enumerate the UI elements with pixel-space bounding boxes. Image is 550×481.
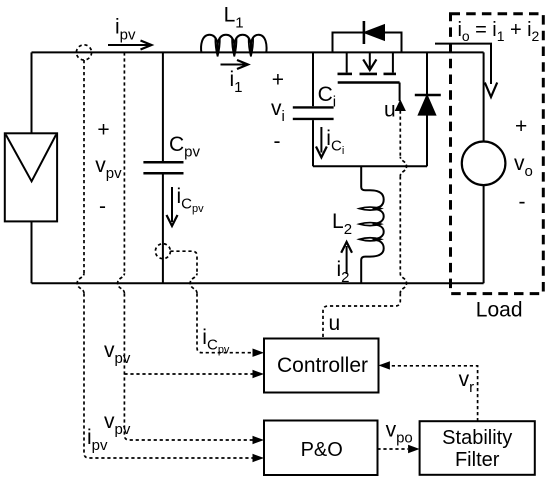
capacitor Cpv bbox=[143, 52, 183, 283]
node: ipv current sense circle bbox=[76, 45, 91, 60]
svg-text:+: + bbox=[272, 69, 284, 92]
svg-text:u: u bbox=[384, 99, 396, 122]
svg-text:iCpv: iCpv bbox=[202, 326, 230, 356]
svg-text:P&O: P&O bbox=[301, 439, 343, 461]
svg-text:Load: Load bbox=[476, 299, 523, 322]
arrowhead ipv into P&O bbox=[253, 454, 265, 462]
svg-text:vpv: vpv bbox=[104, 410, 131, 438]
inductor L2 bbox=[359, 166, 383, 283]
PV panel bbox=[5, 133, 57, 221]
inductor L1 bbox=[201, 35, 266, 57]
MOSFET Q1 bbox=[338, 52, 400, 101]
svg-text:Controller: Controller bbox=[277, 354, 368, 377]
svg-text:iCi: iCi bbox=[326, 127, 344, 157]
svg-text:Filter: Filter bbox=[455, 449, 500, 471]
svg-text:+: + bbox=[515, 115, 527, 138]
arrowhead vpo into stability filter bbox=[408, 445, 420, 453]
svg-text:vo: vo bbox=[514, 152, 533, 180]
node: iCpv sense circle bbox=[155, 244, 170, 259]
svg-text:-: - bbox=[274, 130, 281, 153]
body diode D1 bbox=[333, 21, 402, 52]
arrowhead vpv into P&O bbox=[253, 436, 265, 444]
signal line vr bbox=[390, 366, 478, 421]
arrow i1 bbox=[221, 64, 246, 66]
svg-text:vpv: vpv bbox=[95, 154, 122, 182]
controller box bbox=[264, 339, 379, 393]
u gate arrowhead bbox=[396, 101, 406, 111]
stability filter box bbox=[420, 421, 535, 475]
svg-text:i1: i1 bbox=[230, 68, 243, 96]
wire: bottom rail bbox=[32, 282, 484, 284]
arrow i2 bbox=[346, 246, 348, 274]
signal line u bbox=[399, 111, 401, 157]
arrowhead vpv into controller bbox=[253, 370, 265, 378]
arrow iCi bbox=[320, 127, 322, 153]
svg-text:Stability: Stability bbox=[442, 427, 512, 449]
svg-text:-: - bbox=[99, 195, 106, 218]
P&O box bbox=[264, 421, 378, 476]
arrow i_pv bbox=[108, 44, 150, 46]
signal line vpv to controller bbox=[124, 373, 252, 375]
svg-text:vi: vi bbox=[271, 97, 285, 125]
svg-text:vpv: vpv bbox=[104, 339, 131, 367]
wire: top rail bbox=[32, 51, 484, 53]
diode D2 bbox=[415, 52, 441, 166]
capacitor Ci bbox=[293, 52, 334, 166]
svg-text:L2: L2 bbox=[332, 210, 352, 238]
arrow iCpv bbox=[171, 187, 173, 222]
svg-text:Cpv: Cpv bbox=[169, 133, 201, 161]
svg-text:u: u bbox=[329, 312, 341, 335]
svg-text:L1: L1 bbox=[224, 4, 244, 32]
arrow io bbox=[435, 44, 491, 84]
wire from source bottom bbox=[483, 185, 485, 283]
voltage source vo bbox=[462, 142, 506, 186]
load box bbox=[451, 14, 544, 294]
svg-text:iCpv: iCpv bbox=[177, 185, 205, 215]
svg-text:vr: vr bbox=[459, 368, 475, 396]
arrowhead vr into controller bbox=[378, 361, 390, 369]
wire: PV bottom to bottom rail bbox=[31, 221, 33, 283]
wire into load top bbox=[483, 52, 485, 141]
svg-text:ipv: ipv bbox=[115, 16, 136, 44]
arrowhead iCpv into controller bbox=[253, 349, 265, 357]
signal line ipv bbox=[83, 60, 85, 273]
signal line vpv tap bbox=[123, 52, 125, 273]
wire: PV top to top rail bbox=[31, 52, 33, 133]
signal line iCpv bbox=[170, 251, 197, 273]
svg-text:vpo: vpo bbox=[386, 419, 413, 447]
svg-text:+: + bbox=[97, 119, 109, 142]
svg-text:io = i1 + i2: io = i1 + i2 bbox=[458, 19, 540, 44]
wire: middle block bottom bbox=[313, 165, 427, 167]
svg-text:-: - bbox=[519, 191, 526, 214]
signal line vpo bbox=[377, 448, 408, 450]
